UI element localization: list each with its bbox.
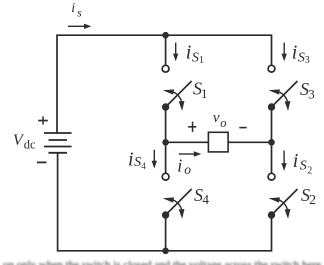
svg-text:S: S: [192, 50, 199, 65]
svg-text:3: 3: [308, 87, 315, 102]
svg-text:i: i: [128, 148, 134, 170]
svg-text:i: i: [71, 1, 75, 16]
svg-text:2: 2: [309, 192, 316, 207]
svg-text:v: v: [213, 110, 220, 126]
svg-text:S: S: [300, 159, 307, 174]
svg-text:4: 4: [141, 161, 146, 171]
svg-text:i: i: [177, 155, 182, 175]
svg-text:o: o: [184, 162, 191, 177]
svg-text:3: 3: [305, 55, 310, 66]
svg-text:s: s: [77, 7, 82, 19]
svg-text:S: S: [134, 155, 141, 170]
svg-text:2: 2: [307, 165, 312, 176]
svg-text:on only when the switch is clo: on only when the switch is closed and th…: [3, 259, 321, 265]
svg-text:i: i: [292, 42, 298, 64]
svg-text:4: 4: [202, 192, 209, 207]
svg-text:1: 1: [199, 55, 204, 66]
svg-text:o: o: [220, 116, 226, 130]
svg-text:i: i: [186, 42, 192, 64]
svg-text:i: i: [293, 150, 299, 172]
svg-text:1: 1: [201, 86, 208, 101]
svg-text:dc: dc: [24, 138, 36, 152]
